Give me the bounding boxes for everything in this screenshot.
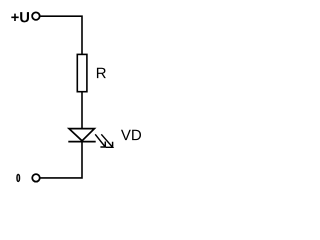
node +U label [11,12,29,22]
terminal 0 [32,174,40,182]
LED cathode bar [68,141,95,143]
wire: resistor to LED [81,92,83,129]
LED VD triangle (anode) [69,129,94,141]
resistor R [77,54,87,91]
label VD [121,130,141,140]
wire bottom: LED to terminal [41,142,83,178]
node 0 label [16,174,20,182]
label R [97,68,106,78]
terminal +U [32,12,40,20]
LED emission arrow 1 [95,134,105,147]
LED emission arrow 2 [101,134,112,147]
wire top: terminal to resistor [40,16,82,54]
